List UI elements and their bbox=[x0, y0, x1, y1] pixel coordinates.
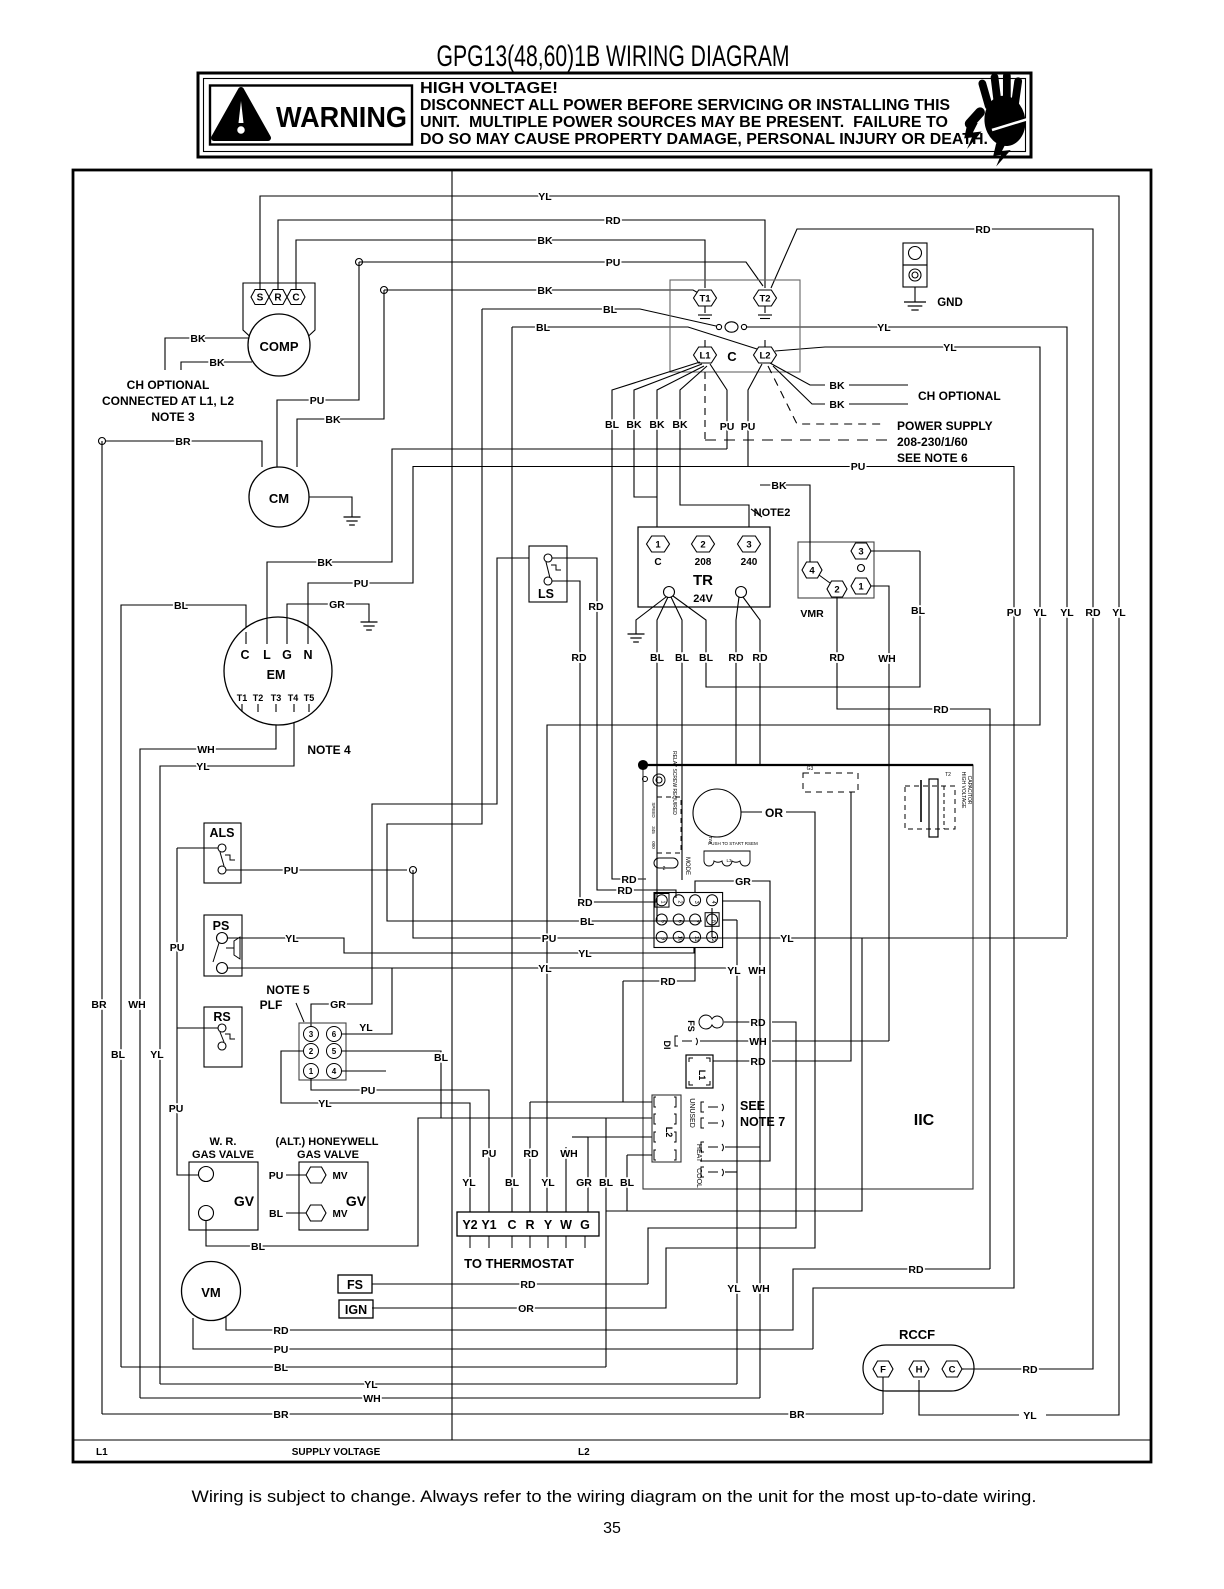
wire PU ALS drop bbox=[413, 870, 416, 938]
dashed CH optional L2 bbox=[768, 366, 885, 424]
svg-text:RD: RD bbox=[933, 704, 949, 716]
svg-text:BK: BK bbox=[626, 419, 642, 431]
wire BR bbox=[99, 438, 106, 445]
svg-text:PU: PU bbox=[851, 461, 866, 473]
svg-text:Y2: Y2 bbox=[462, 1218, 477, 1232]
wire BL bottom drop bbox=[605, 1118, 607, 1367]
wire PU EM-N bbox=[308, 466, 413, 632]
contactor terminal L1 bbox=[694, 347, 717, 363]
svg-text:MODE: MODE bbox=[684, 857, 690, 875]
wire RS left bbox=[177, 1027, 218, 1029]
svg-text:GR: GR bbox=[576, 1177, 592, 1189]
RCCF stubs bbox=[882, 1377, 884, 1414]
svg-text:RD: RD bbox=[588, 601, 604, 613]
ignitor FS box bbox=[338, 1275, 372, 1293]
svg-text:G: G bbox=[580, 1218, 590, 1232]
svg-text:HIGH VOLTAGE!: HIGH VOLTAGE! bbox=[420, 80, 558, 97]
svg-text:PU: PU bbox=[542, 933, 557, 945]
svg-text:OR: OR bbox=[765, 806, 783, 820]
svg-text:BL: BL bbox=[536, 322, 551, 334]
RCCF terminal C bbox=[942, 1361, 962, 1377]
wire RD LS bottom bbox=[552, 581, 656, 902]
wire WH bottom bbox=[140, 1397, 760, 1399]
wire RD VMR-2 bbox=[837, 597, 990, 1269]
svg-text:WARNING: WARNING bbox=[276, 102, 407, 134]
vent motor relay VMR box bbox=[798, 542, 874, 598]
ground lug GND bbox=[903, 243, 927, 265]
svg-text:11: 11 bbox=[693, 936, 699, 942]
wire YL PLF6 bbox=[342, 968, 392, 1034]
svg-text:2: 2 bbox=[663, 866, 666, 872]
svg-text:PU: PU bbox=[741, 421, 756, 433]
Honeywell MV bottom bbox=[306, 1205, 326, 1221]
svg-text:SEE NOTE 6: SEE NOTE 6 bbox=[897, 451, 968, 465]
svg-text:DO SO MAY CAUSE PROPERTY DAMAG: DO SO MAY CAUSE PROPERTY DAMAGE, PERSONA… bbox=[420, 131, 988, 148]
svg-text:SUPPLY VOLTAGE: SUPPLY VOLTAGE bbox=[292, 1447, 381, 1458]
svg-text:5: 5 bbox=[332, 1047, 337, 1056]
svg-text:NOTE 4: NOTE 4 bbox=[307, 743, 351, 757]
svg-text:1: 1 bbox=[655, 539, 661, 550]
svg-text:YL: YL bbox=[877, 322, 891, 334]
svg-text:GAS VALVE: GAS VALVE bbox=[192, 1149, 254, 1161]
Honeywell MV top bbox=[306, 1167, 326, 1183]
svg-text:DISCONNECT ALL POWER BEFORE SE: DISCONNECT ALL POWER BEFORE SERVICING OR… bbox=[420, 97, 950, 114]
svg-text:35: 35 bbox=[603, 1520, 621, 1537]
wire YL rail bbox=[160, 700, 294, 1384]
wire PU MV bbox=[286, 1174, 306, 1176]
svg-text:C: C bbox=[654, 557, 661, 568]
wire PU drop to CM bbox=[277, 262, 359, 467]
svg-text:C: C bbox=[727, 349, 737, 364]
TR terminal 3 bbox=[738, 536, 761, 552]
svg-text:208: 208 bbox=[695, 557, 712, 568]
wire RD top bbox=[278, 220, 765, 290]
svg-text:RD: RD bbox=[752, 652, 768, 664]
svg-text:YL: YL bbox=[462, 1177, 476, 1189]
svg-text:1: 1 bbox=[660, 901, 666, 904]
svg-text:RS: RS bbox=[213, 1010, 230, 1024]
supply voltage divider bbox=[73, 1439, 1151, 1441]
wire BR bottom bbox=[102, 1413, 883, 1415]
center divider wire bbox=[451, 170, 453, 1440]
svg-text:SEE: SEE bbox=[740, 1099, 765, 1113]
svg-text:BK: BK bbox=[771, 480, 787, 492]
svg-text:PU: PU bbox=[606, 257, 621, 269]
wire WH VMR-1 bbox=[871, 586, 889, 1041]
contact armature bbox=[716, 324, 721, 329]
svg-text:L1: L1 bbox=[96, 1447, 108, 1458]
svg-text:BL: BL bbox=[599, 1177, 614, 1189]
svg-text:T2: T2 bbox=[759, 293, 770, 304]
svg-text:BK: BK bbox=[209, 357, 225, 369]
svg-text:PU: PU bbox=[482, 1148, 497, 1160]
wire BK from L1 a bbox=[634, 364, 702, 497]
wire BL MV bbox=[286, 1212, 306, 1214]
TR fan wires bbox=[636, 597, 666, 634]
svg-text:Y: Y bbox=[544, 1218, 553, 1232]
svg-text:S: S bbox=[257, 293, 264, 304]
svg-text:WH: WH bbox=[560, 1148, 578, 1160]
svg-text:PS: PS bbox=[213, 919, 230, 933]
svg-text:2: 2 bbox=[309, 1047, 314, 1056]
terminal R bbox=[269, 290, 287, 305]
svg-text:PU: PU bbox=[169, 1103, 184, 1115]
warning triangle icon bbox=[214, 90, 268, 138]
transformer TR box bbox=[638, 527, 770, 607]
wire RD thermostat R bbox=[529, 1102, 531, 1212]
compressor terminal housing bbox=[243, 283, 315, 344]
svg-text:T1: T1 bbox=[699, 293, 711, 304]
svg-text:N: N bbox=[303, 648, 312, 662]
wire YL from armature bbox=[746, 327, 1067, 937]
svg-text:CAPACITOR: CAPACITOR bbox=[966, 776, 972, 805]
svg-text:TR: TR bbox=[693, 572, 713, 589]
svg-text:BK: BK bbox=[672, 419, 688, 431]
svg-text:UNUSED: UNUSED bbox=[688, 1098, 695, 1128]
junction PU ALS bbox=[410, 867, 417, 874]
wire YL bottom bbox=[160, 1383, 737, 1385]
svg-text:WH: WH bbox=[363, 1393, 381, 1405]
svg-text:(ALT.) HONEYWELL: (ALT.) HONEYWELL bbox=[275, 1136, 378, 1148]
svg-text:L1: L1 bbox=[699, 350, 711, 361]
svg-text:T2: T2 bbox=[253, 693, 264, 703]
contactor terminal T1 bbox=[694, 290, 717, 306]
wire YL pin10 row bbox=[711, 908, 713, 937]
LS contacts bbox=[544, 554, 552, 562]
svg-text:PUSH TO START RSEM: PUSH TO START RSEM bbox=[708, 841, 758, 846]
wire WH HEAT bbox=[725, 1146, 760, 1148]
svg-text:345: 345 bbox=[651, 826, 656, 834]
svg-text:3: 3 bbox=[309, 1030, 314, 1039]
svg-text:L2: L2 bbox=[578, 1447, 590, 1458]
wire GR thermostat G bbox=[588, 1136, 652, 1138]
svg-text:F: F bbox=[880, 1364, 886, 1375]
svg-text:L2: L2 bbox=[759, 350, 770, 361]
wire BK EM-L bbox=[267, 449, 727, 632]
svg-text:GV: GV bbox=[234, 1193, 255, 1209]
svg-text:24V: 24V bbox=[693, 593, 713, 605]
svg-text:208-230/1/60: 208-230/1/60 bbox=[897, 435, 968, 449]
svg-text:BK: BK bbox=[325, 414, 341, 426]
svg-text:RELAY SCREW REQUIRED: RELAY SCREW REQUIRED bbox=[671, 751, 677, 815]
contactor terminal L2 bbox=[754, 347, 777, 363]
RCCF terminal H bbox=[909, 1361, 929, 1377]
wire BL armature lower bbox=[512, 327, 757, 349]
svg-text:SPEED: SPEED bbox=[651, 802, 656, 818]
svg-text:ALS: ALS bbox=[210, 826, 235, 840]
hand shock icon bbox=[963, 72, 1029, 166]
svg-text:RD: RD bbox=[750, 1017, 766, 1029]
wire BK CH b bbox=[773, 366, 825, 404]
svg-text:T1: T1 bbox=[237, 693, 248, 703]
wire PU VM bbox=[193, 1318, 813, 1349]
svg-text:3: 3 bbox=[858, 546, 863, 557]
wire BK to VMR bbox=[760, 485, 810, 562]
junction PU bbox=[356, 259, 363, 266]
contactor terminal T2 bbox=[754, 290, 777, 306]
wire BL PLF5 bbox=[342, 1051, 441, 1118]
svg-text:RD: RD bbox=[577, 897, 593, 909]
svg-text:CM: CM bbox=[269, 491, 289, 506]
svg-text:RD: RD bbox=[660, 976, 676, 988]
TR terminal 2 bbox=[692, 536, 715, 552]
svg-text:T4: T4 bbox=[288, 693, 299, 703]
svg-text:GR: GR bbox=[330, 999, 346, 1011]
svg-text:8: 8 bbox=[710, 920, 716, 923]
wire RD L2con a bbox=[530, 1101, 652, 1103]
wire BK drop to CM bbox=[297, 290, 384, 467]
thermostat strip bbox=[457, 1212, 599, 1236]
wire WH thermostat W bbox=[565, 1147, 567, 1212]
wire PU from L1 bbox=[710, 364, 727, 449]
svg-text:NOTE2: NOTE2 bbox=[754, 507, 791, 519]
control board IIC outline bbox=[643, 765, 973, 1189]
wire RD LS top bbox=[552, 558, 676, 898]
dashed CH optional L1 bbox=[704, 372, 706, 440]
warning label box bbox=[210, 86, 412, 145]
remote cool fan RCCF outline bbox=[863, 1345, 974, 1391]
svg-text:RD: RD bbox=[520, 1279, 536, 1291]
wire WH DI bbox=[700, 1040, 753, 1042]
svg-text:RD: RD bbox=[829, 652, 845, 664]
svg-text:BL: BL bbox=[620, 1177, 635, 1189]
wire PU from L2 bbox=[748, 364, 762, 467]
wire BK top bbox=[296, 240, 705, 290]
svg-text:YL: YL bbox=[285, 933, 299, 945]
wire BL L2 pin4 bbox=[627, 1154, 652, 1156]
svg-text:C: C bbox=[240, 648, 249, 662]
svg-text:YL: YL bbox=[150, 1049, 164, 1061]
svg-text:BR: BR bbox=[789, 1409, 805, 1421]
svg-text:G: G bbox=[282, 648, 292, 662]
svg-text:T5: T5 bbox=[304, 693, 315, 703]
wire BL thermostat C bbox=[511, 1118, 513, 1212]
svg-text:BK: BK bbox=[537, 235, 553, 247]
wire BK CH a bbox=[770, 363, 825, 385]
wire BL from L1 bbox=[612, 362, 700, 879]
wire YL top bbox=[260, 196, 1119, 1415]
svg-text:WH: WH bbox=[197, 744, 215, 756]
svg-text:PLF: PLF bbox=[260, 998, 283, 1012]
wire L2 pin2 bbox=[572, 1136, 588, 1138]
svg-text:RD: RD bbox=[523, 1148, 539, 1160]
svg-text:BL: BL bbox=[274, 1362, 289, 1374]
board top edge thick bbox=[643, 764, 973, 766]
svg-text:NOTE 5: NOTE 5 bbox=[266, 983, 310, 997]
svg-text:12: 12 bbox=[710, 936, 716, 942]
svg-text:CONNECTED AT L1, L2: CONNECTED AT L1, L2 bbox=[102, 394, 234, 408]
svg-text:BL: BL bbox=[434, 1052, 449, 1064]
svg-text:BL: BL bbox=[603, 304, 618, 316]
svg-text:VM: VM bbox=[201, 1285, 221, 1300]
svg-text:6: 6 bbox=[332, 1030, 337, 1039]
ignitor IGN box bbox=[339, 1300, 373, 1318]
svg-text:R: R bbox=[525, 1218, 534, 1232]
board corner junction dot bbox=[639, 761, 648, 770]
svg-text:YL: YL bbox=[1023, 1410, 1037, 1422]
svg-text:WH: WH bbox=[752, 1283, 770, 1295]
wire BL to grid row2 bbox=[387, 309, 702, 921]
wire BK second bbox=[384, 290, 702, 295]
svg-text:Y1: Y1 bbox=[481, 1218, 496, 1232]
svg-text:BL: BL bbox=[911, 605, 926, 617]
wire PU rail left bbox=[177, 848, 199, 1175]
VMR terminal 1 bbox=[851, 578, 871, 594]
svg-text:Wiring is subject to change. A: Wiring is subject to change. Always refe… bbox=[192, 1488, 1037, 1506]
svg-text:BL: BL bbox=[505, 1177, 520, 1189]
svg-text:GR: GR bbox=[735, 876, 751, 888]
wire RD below grid bbox=[623, 953, 695, 981]
svg-text:BL: BL bbox=[699, 652, 714, 664]
wire GR PLF chain bbox=[311, 558, 529, 1026]
svg-text:RD: RD bbox=[750, 1056, 766, 1068]
thermostat stubs bbox=[469, 1236, 471, 1248]
wire BK comp left 1 bbox=[165, 338, 249, 370]
wire PU PLF1 bbox=[311, 1079, 489, 1212]
svg-text:CH OPTIONAL: CH OPTIONAL bbox=[127, 378, 210, 392]
svg-text:YL: YL bbox=[364, 1379, 378, 1391]
svg-text:BK: BK bbox=[649, 419, 665, 431]
gas valve WR box bbox=[189, 1162, 258, 1230]
svg-text:LS: LS bbox=[538, 587, 554, 601]
svg-text:IGN: IGN bbox=[345, 1303, 367, 1317]
svg-text:IIC: IIC bbox=[914, 1112, 935, 1129]
svg-text:WH: WH bbox=[128, 999, 146, 1011]
VMR terminal 3 bbox=[851, 543, 871, 559]
board 12-pin connector bbox=[654, 893, 723, 948]
EM terminal stubs bbox=[245, 632, 247, 644]
svg-text:GPG13(48,60)1B WIRING DIAGRAM: GPG13(48,60)1B WIRING DIAGRAM bbox=[437, 40, 790, 73]
junction BK bbox=[381, 287, 388, 294]
svg-text:GR: GR bbox=[329, 599, 345, 611]
wire PU YL long mid bbox=[416, 937, 1067, 939]
svg-text:RD: RD bbox=[617, 885, 633, 897]
svg-text:YL: YL bbox=[943, 342, 957, 354]
svg-text:240: 240 bbox=[741, 557, 758, 568]
svg-text:BK: BK bbox=[537, 285, 553, 297]
wire CM ground bbox=[309, 497, 352, 517]
svg-text:2: 2 bbox=[834, 584, 839, 595]
svg-text:YL: YL bbox=[541, 1177, 555, 1189]
svg-text:YL: YL bbox=[318, 1098, 332, 1110]
svg-text:G3: G3 bbox=[807, 766, 814, 772]
wire PU top bbox=[359, 262, 763, 286]
svg-text:L3: L3 bbox=[726, 858, 732, 863]
diagram border bbox=[73, 170, 1151, 1462]
svg-text:BL: BL bbox=[605, 419, 620, 431]
contact links L1 L2 bbox=[704, 340, 706, 347]
svg-text:DI: DI bbox=[662, 1041, 672, 1050]
wire BK from L1 b bbox=[657, 366, 704, 527]
svg-text:R: R bbox=[274, 293, 282, 304]
wire RD L1 connector bbox=[713, 1060, 753, 1062]
wire PU ALS bbox=[226, 869, 407, 871]
flame sensor FS on board bbox=[699, 1015, 723, 1029]
svg-text:CH OPTIONAL: CH OPTIONAL bbox=[918, 389, 1001, 403]
note NOTE2 arrow bbox=[751, 509, 762, 517]
VMR terminal 4 bbox=[802, 562, 822, 578]
wire YL PS bottom bbox=[228, 967, 737, 969]
svg-text:WH: WH bbox=[878, 653, 896, 665]
svg-text:BL: BL bbox=[580, 916, 595, 928]
svg-text:10: 10 bbox=[677, 936, 683, 942]
limit switch ALS box bbox=[204, 823, 241, 883]
wire BL GV bbox=[206, 1118, 652, 1246]
board dashed strip bbox=[657, 797, 681, 853]
svg-text:H: H bbox=[916, 1364, 923, 1375]
plug PLF box bbox=[299, 1023, 346, 1080]
svg-text:4: 4 bbox=[332, 1067, 337, 1076]
gas valve Honeywell box bbox=[299, 1162, 368, 1230]
svg-text:C: C bbox=[949, 1364, 956, 1375]
wire RD VM bbox=[226, 1269, 990, 1330]
svg-text:PU: PU bbox=[354, 578, 369, 590]
wire RD FS bbox=[372, 1283, 648, 1285]
svg-text:RD: RD bbox=[1085, 607, 1101, 619]
TR terminal 1 bbox=[647, 536, 670, 552]
wire YL pin9 bbox=[694, 947, 696, 953]
svg-text:3: 3 bbox=[746, 539, 751, 550]
warning banner box bbox=[198, 73, 1031, 157]
wire YL COOL bbox=[725, 1171, 737, 1173]
svg-text:FS: FS bbox=[347, 1278, 363, 1292]
svg-text:POWER SUPPLY: POWER SUPPLY bbox=[897, 419, 993, 433]
svg-text:L: L bbox=[263, 648, 271, 662]
svg-text:3: 3 bbox=[693, 901, 699, 904]
svg-text:PU: PU bbox=[170, 942, 185, 954]
compressor COMP bbox=[248, 314, 310, 376]
svg-text:EM: EM bbox=[267, 668, 286, 682]
svg-text:YL: YL bbox=[727, 965, 741, 977]
svg-text:WH: WH bbox=[749, 1036, 767, 1048]
svg-text:2: 2 bbox=[677, 901, 683, 904]
svg-text:GAS VALVE: GAS VALVE bbox=[297, 1149, 359, 1161]
svg-text:T3: T3 bbox=[271, 693, 282, 703]
svg-text:GND: GND bbox=[937, 297, 963, 309]
evaporator motor EM bbox=[224, 617, 332, 725]
svg-text:MV: MV bbox=[333, 1209, 348, 1220]
svg-text:RCCF: RCCF bbox=[899, 1327, 935, 1342]
wire BK from L1 c bbox=[680, 366, 749, 527]
svg-text:VMR: VMR bbox=[800, 608, 824, 620]
wire YL PS top bbox=[228, 938, 694, 953]
svg-text:FS: FS bbox=[686, 1020, 696, 1032]
wire GR EM-G bbox=[287, 604, 369, 632]
wire WH rail bbox=[140, 700, 276, 1398]
board mounting screw bbox=[653, 774, 665, 786]
svg-text:HIGH VOLTAGE: HIGH VOLTAGE bbox=[960, 772, 966, 809]
svg-text:UNIT. MULTIPLE POWER SOURCES: UNIT. MULTIPLE POWER SOURCES MAY BE PRES… bbox=[420, 114, 948, 131]
svg-text:RD: RD bbox=[908, 1264, 924, 1276]
wire BL bottom bbox=[121, 1366, 606, 1368]
svg-text:PU: PU bbox=[274, 1344, 289, 1356]
svg-text:T2: T2 bbox=[945, 772, 951, 778]
svg-text:W: W bbox=[560, 1218, 572, 1232]
wire OR bbox=[741, 811, 762, 813]
svg-text:OR: OR bbox=[518, 1303, 534, 1315]
wire rollout RS box bbox=[204, 1007, 242, 1067]
svg-text:YL: YL bbox=[780, 933, 794, 945]
svg-text:RD: RD bbox=[975, 224, 991, 236]
svg-text:COMP: COMP bbox=[260, 339, 299, 354]
terminal S bbox=[251, 290, 269, 305]
wire BR rail bbox=[101, 441, 103, 1414]
svg-text:BL: BL bbox=[251, 1241, 266, 1253]
svg-text:YL: YL bbox=[538, 191, 552, 203]
svg-text:PU: PU bbox=[269, 1170, 284, 1182]
svg-text:000: 000 bbox=[651, 841, 656, 849]
high voltage capacitor bbox=[905, 786, 955, 829]
